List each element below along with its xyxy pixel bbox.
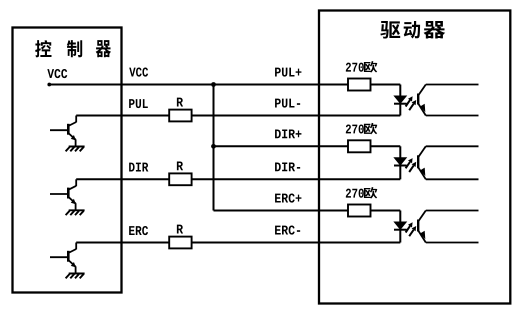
light arrows (row 2) bbox=[406, 158, 417, 172]
label ERC+ bbox=[275, 194, 301, 203]
label PUL bbox=[129, 99, 148, 108]
wire DIR line bbox=[76, 178, 400, 180]
ground (Q1 emitter) bbox=[66, 147, 85, 152]
label R (PUL) bbox=[177, 98, 183, 107]
node junction bus/DIR+ bbox=[211, 144, 216, 149]
label 270 (row 2) bbox=[346, 124, 364, 133]
label VCC controller pin bbox=[47, 69, 67, 78]
label PUL+ bbox=[275, 68, 301, 77]
light arrows (row 3) bbox=[406, 222, 417, 236]
wire ERC+ from bus bbox=[214, 210, 401, 212]
resistor R (ERC) bbox=[169, 237, 191, 249]
resistor 270ohm (row 3) bbox=[348, 205, 371, 217]
label DIR bbox=[129, 163, 148, 172]
light arrows (row 1) bbox=[406, 96, 417, 110]
optocoupler LED (row 2) bbox=[394, 146, 407, 179]
resistor R (PUL) bbox=[169, 110, 191, 122]
controller box bbox=[13, 28, 122, 293]
label 欧 (row 3) bbox=[364, 187, 377, 199]
label 270 (row 3) bbox=[346, 189, 364, 198]
optocoupler phototransistor (row 3) bbox=[418, 211, 478, 243]
resistor R (DIR) bbox=[169, 173, 191, 185]
driver box bbox=[319, 11, 510, 304]
label R (DIR) bbox=[177, 161, 183, 170]
ground (Q2 emitter) bbox=[66, 210, 85, 215]
node junction bus/PUL+ bbox=[211, 82, 216, 87]
driver title 驱动器 bbox=[380, 21, 445, 39]
resistor 270ohm (row 2) bbox=[348, 140, 371, 152]
transistor Q3 (NPN, controller ERC output) bbox=[50, 243, 76, 274]
label DIR- bbox=[275, 162, 300, 171]
wire VCC from controller to driver (PUL+ net) bbox=[48, 84, 400, 86]
optocoupler LED (row 1) bbox=[394, 85, 407, 116]
label R (ERC) bbox=[177, 225, 183, 234]
label 欧 (row 2) bbox=[364, 123, 377, 135]
label 270 (row 1) bbox=[346, 63, 364, 72]
wire ERC line bbox=[76, 242, 400, 244]
wire VCC vertical bus bbox=[213, 85, 215, 211]
controller title 控制器 bbox=[35, 40, 111, 57]
transistor Q1 (NPN, controller PUL output) bbox=[50, 116, 76, 147]
label 欧 (row 1) bbox=[364, 61, 377, 73]
transistor Q2 (NPN, controller DIR output) bbox=[50, 179, 76, 210]
label ERC bbox=[129, 226, 148, 235]
label DIR+ bbox=[275, 129, 301, 138]
optocoupler phototransistor (row 1) bbox=[418, 85, 478, 116]
wire DIR+ from bus bbox=[214, 145, 401, 147]
optocoupler phototransistor (row 2) bbox=[418, 146, 478, 179]
label PUL- bbox=[275, 99, 300, 108]
wire PUL line bbox=[76, 115, 400, 117]
label ERC- bbox=[275, 226, 300, 235]
resistor 270ohm (row 1) bbox=[348, 79, 371, 91]
optocoupler LED (row 3) bbox=[394, 211, 407, 243]
label VCC net bbox=[129, 68, 148, 77]
ground (Q3 emitter) bbox=[66, 274, 85, 279]
